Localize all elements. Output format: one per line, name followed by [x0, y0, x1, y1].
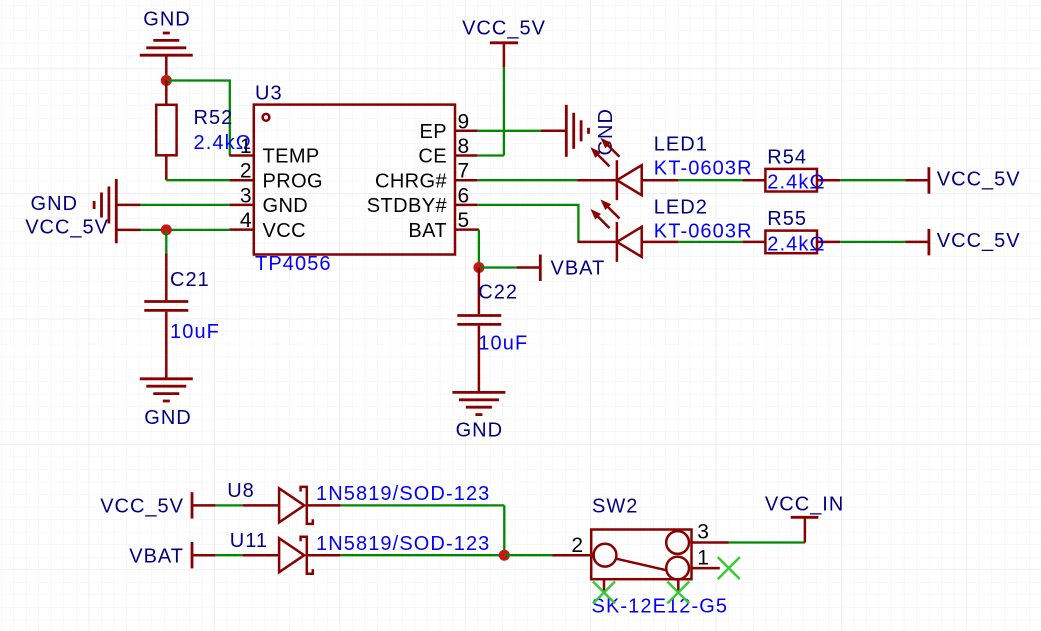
- wire VCC_5V port to pin4 VCC: [141, 229, 230, 231]
- svg-text:LED1: LED1: [654, 134, 708, 156]
- no-connect flag (SW2 bottom-left): [593, 582, 615, 604]
- svg-text:7: 7: [458, 160, 470, 183]
- capacitor C22: [457, 268, 501, 393]
- junction node (GND / R52 / TEMP wire): [161, 75, 172, 86]
- svg-text:VBAT: VBAT: [551, 258, 606, 280]
- pin number 3 (SW2): [697, 521, 709, 544]
- switch SW2 (SK-12E12-G5): [552, 530, 728, 594]
- wire junction to VBAT port: [479, 266, 517, 268]
- wire EP to GND symbol: [478, 130, 541, 132]
- svg-text:GND: GND: [595, 108, 617, 155]
- svg-text:VCC_5V: VCC_5V: [462, 18, 546, 40]
- svg-text:BAT: BAT: [408, 220, 447, 242]
- svg-text:CHRG#: CHRG#: [375, 170, 447, 192]
- value 1N5819/SOD-123 (U11): [316, 533, 490, 555]
- svg-text:R55: R55: [767, 208, 807, 230]
- svg-text:3: 3: [697, 521, 709, 544]
- svg-text:C21: C21: [170, 269, 210, 291]
- resistor R55: [742, 231, 840, 254]
- svg-text:1: 1: [240, 135, 252, 158]
- value 2.4k&#937; (R54): [767, 172, 825, 194]
- svg-text:U3: U3: [255, 83, 283, 105]
- svg-text:VCC_5V: VCC_5V: [937, 230, 1021, 252]
- svg-text:VBAT: VBAT: [129, 545, 184, 567]
- label SW2: [592, 496, 638, 518]
- svg-text:R54: R54: [767, 147, 807, 169]
- svg-text:R52: R52: [194, 107, 234, 129]
- svg-text:VCC_5V: VCC_5V: [25, 217, 109, 239]
- ground GND (below C21): [140, 379, 193, 429]
- pin number 1 (SW2): [697, 547, 709, 570]
- svg-text:GND: GND: [263, 195, 309, 217]
- svg-text:PROG: PROG: [263, 170, 324, 192]
- svg-text:KT-0603R: KT-0603R: [654, 221, 753, 243]
- LED LED2: [578, 199, 679, 262]
- value 1N5819/SOD-123 (U8): [316, 483, 490, 505]
- svg-text:1: 1: [697, 547, 709, 570]
- svg-text:TEMP: TEMP: [263, 146, 320, 168]
- label R55: [767, 208, 807, 230]
- value TP4056: [255, 253, 332, 275]
- junction node (U8 / U11 / SW2): [499, 550, 510, 561]
- value KT-0603R (LED1): [654, 158, 753, 180]
- value KT-0603R (LED2): [654, 221, 753, 243]
- svg-text:2: 2: [240, 160, 252, 183]
- wire junction to pin1 TEMP: [166, 81, 230, 156]
- label U11: [230, 530, 268, 552]
- svg-text:VCC_IN: VCC_IN: [765, 494, 844, 516]
- label LED1: [654, 134, 708, 156]
- IC U3 (TP4056): [229, 105, 479, 255]
- svg-text:VCC_5V: VCC_5V: [937, 169, 1021, 191]
- svg-text:STDBY#: STDBY#: [367, 195, 448, 217]
- wire CHRG# to LED1: [478, 179, 578, 181]
- wire R54 to VCC_5V port: [840, 179, 905, 181]
- label C21: [170, 269, 210, 291]
- svg-text:6: 6: [458, 184, 470, 207]
- svg-text:1N5819/SOD-123: 1N5819/SOD-123: [316, 483, 490, 505]
- wire VBAT to U11: [216, 554, 243, 556]
- value 2.4k&#937; (R55): [767, 234, 825, 256]
- svg-text:GND: GND: [31, 193, 78, 215]
- wire GND port to pin3 GND: [141, 204, 230, 206]
- power port VCC_5V (top): [462, 18, 546, 68]
- svg-text:3: 3: [240, 184, 252, 207]
- svg-text:U11: U11: [230, 530, 268, 552]
- capacitor C21: [144, 230, 188, 379]
- pin names U3: [263, 121, 448, 242]
- no-connect flag (SW2 pin1): [718, 557, 740, 579]
- svg-text:GND: GND: [144, 407, 191, 429]
- power port VCC_5V (left): [25, 217, 140, 239]
- ground GND (right of EP, rotated): [541, 105, 617, 157]
- svg-text:10uF: 10uF: [478, 333, 528, 355]
- svg-text:EP: EP: [420, 121, 447, 143]
- svg-text:TP4056: TP4056: [255, 253, 332, 275]
- value SK-12E12-G5 (SW2): [592, 596, 729, 618]
- svg-text:2.4kΩ: 2.4kΩ: [767, 172, 825, 194]
- wire LED2 to R55: [678, 241, 742, 243]
- svg-text:4: 4: [240, 209, 252, 232]
- svg-text:2.4kΩ: 2.4kΩ: [767, 234, 825, 256]
- resistor R52: [156, 81, 176, 181]
- diode U11 (schottky): [243, 537, 341, 574]
- no-connect flag (SW2 bottom-right): [667, 582, 689, 604]
- wire R55 to VCC_5V port: [840, 241, 905, 243]
- label R54: [767, 147, 807, 169]
- svg-text:1N5819/SOD-123: 1N5819/SOD-123: [316, 533, 490, 555]
- resistor R54: [742, 169, 840, 192]
- pin numbers U3: [240, 110, 469, 232]
- svg-text:SW2: SW2: [592, 496, 638, 518]
- power port VCC_IN: [765, 494, 844, 543]
- ground GND (net port, left): [31, 179, 141, 243]
- svg-text:10uF: 10uF: [170, 321, 220, 343]
- svg-text:LED2: LED2: [654, 197, 708, 219]
- LED LED1: [578, 138, 679, 201]
- junction node (VCC wire / C21): [161, 224, 172, 235]
- power port VCC_5V (right, row1): [905, 167, 1020, 194]
- wire SW2 pin3 to VCC_IN: [729, 541, 805, 543]
- svg-text:8: 8: [458, 135, 470, 158]
- svg-text:GND: GND: [456, 420, 503, 442]
- wire BAT down to junction: [478, 230, 480, 268]
- svg-text:2: 2: [571, 534, 583, 557]
- label C22: [478, 282, 518, 304]
- ground GND (below C22): [452, 392, 505, 441]
- label LED2: [654, 197, 708, 219]
- svg-text:VCC_5V: VCC_5V: [100, 496, 184, 518]
- diode U8 (schottky): [243, 487, 341, 524]
- wire R52 bottom to pin2 PROG: [166, 179, 229, 181]
- ground GND (net port, top-left): [140, 9, 193, 81]
- svg-text:9: 9: [458, 110, 470, 133]
- svg-text:GND: GND: [143, 9, 190, 31]
- wire U8 to junction: [341, 505, 505, 555]
- junction node (BAT / VBAT / C22): [473, 262, 484, 273]
- svg-text:5: 5: [458, 209, 470, 232]
- label R52: [194, 107, 234, 129]
- svg-text:CE: CE: [418, 146, 447, 168]
- value 10uF (C22): [478, 333, 528, 355]
- pin number 2 (SW2): [571, 534, 583, 557]
- wire VCC_5V down to CE: [478, 67, 504, 155]
- power port VCC_5V (right, row2): [905, 229, 1020, 256]
- wire VCC_5V to U8: [216, 504, 243, 506]
- power port VBAT (mid): [517, 255, 606, 282]
- label U8: [227, 480, 255, 502]
- wire STDBY# to LED2: [478, 205, 579, 242]
- svg-text:U8: U8: [227, 480, 255, 502]
- label U3: [255, 83, 283, 105]
- power port VCC_5V (bottom-left): [100, 492, 216, 518]
- power port VBAT (bottom-left): [129, 542, 215, 568]
- svg-text:KT-0603R: KT-0603R: [654, 158, 753, 180]
- value 2.4k&#937; (R52): [194, 132, 252, 154]
- svg-text:C22: C22: [478, 282, 518, 304]
- svg-text:VCC: VCC: [263, 220, 306, 242]
- wire junction to SW2 pin2: [504, 554, 552, 556]
- wire U11 to junction: [341, 554, 505, 556]
- wire LED1 to R54: [678, 179, 742, 181]
- value 10uF (C21): [170, 321, 220, 343]
